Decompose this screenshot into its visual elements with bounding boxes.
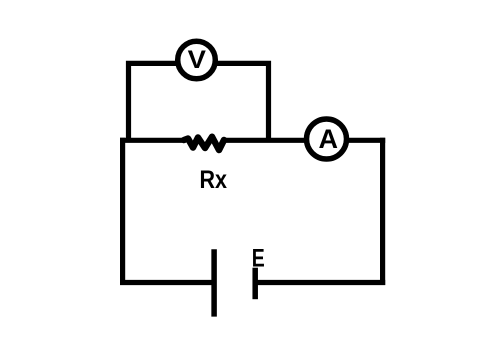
svg-text:V: V [188,46,207,74]
svg-text:E: E [252,245,265,273]
svg-text:Rx: Rx [200,166,228,194]
svg-text:A: A [318,124,338,154]
